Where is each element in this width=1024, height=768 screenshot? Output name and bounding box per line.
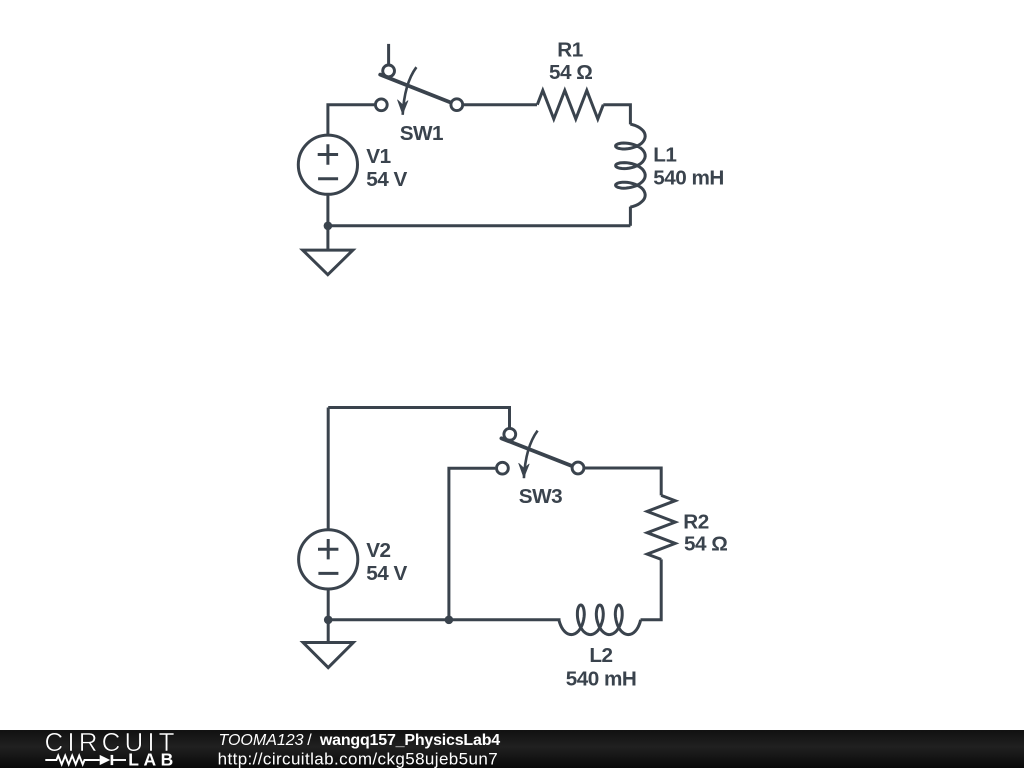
svg-text:R1: R1 [557, 38, 582, 61]
svg-text:540 mH: 540 mH [653, 167, 724, 190]
svg-text:SW1: SW1 [400, 122, 443, 145]
svg-text:R2: R2 [683, 511, 708, 534]
svg-text:http://circuitlab.com/ckg58uje: http://circuitlab.com/ckg58ujeb5un7 [218, 750, 499, 768]
svg-text:L1: L1 [653, 144, 676, 167]
svg-text:L2: L2 [589, 644, 612, 667]
svg-text:SW3: SW3 [519, 485, 562, 508]
svg-text:TOOMA123: TOOMA123 [219, 732, 304, 749]
svg-text:54 Ω: 54 Ω [684, 533, 727, 556]
svg-text:540 mH: 540 mH [566, 668, 637, 691]
svg-text:54 V: 54 V [366, 168, 407, 191]
svg-text:V1: V1 [366, 145, 390, 168]
svg-text:LAB: LAB [128, 750, 177, 768]
svg-text:54 V: 54 V [366, 562, 407, 585]
svg-text:V2: V2 [366, 539, 390, 562]
svg-text:wangq157_PhysicsLab4: wangq157_PhysicsLab4 [319, 732, 500, 749]
svg-text:54 Ω: 54 Ω [549, 61, 592, 84]
svg-text:/: / [307, 732, 312, 749]
